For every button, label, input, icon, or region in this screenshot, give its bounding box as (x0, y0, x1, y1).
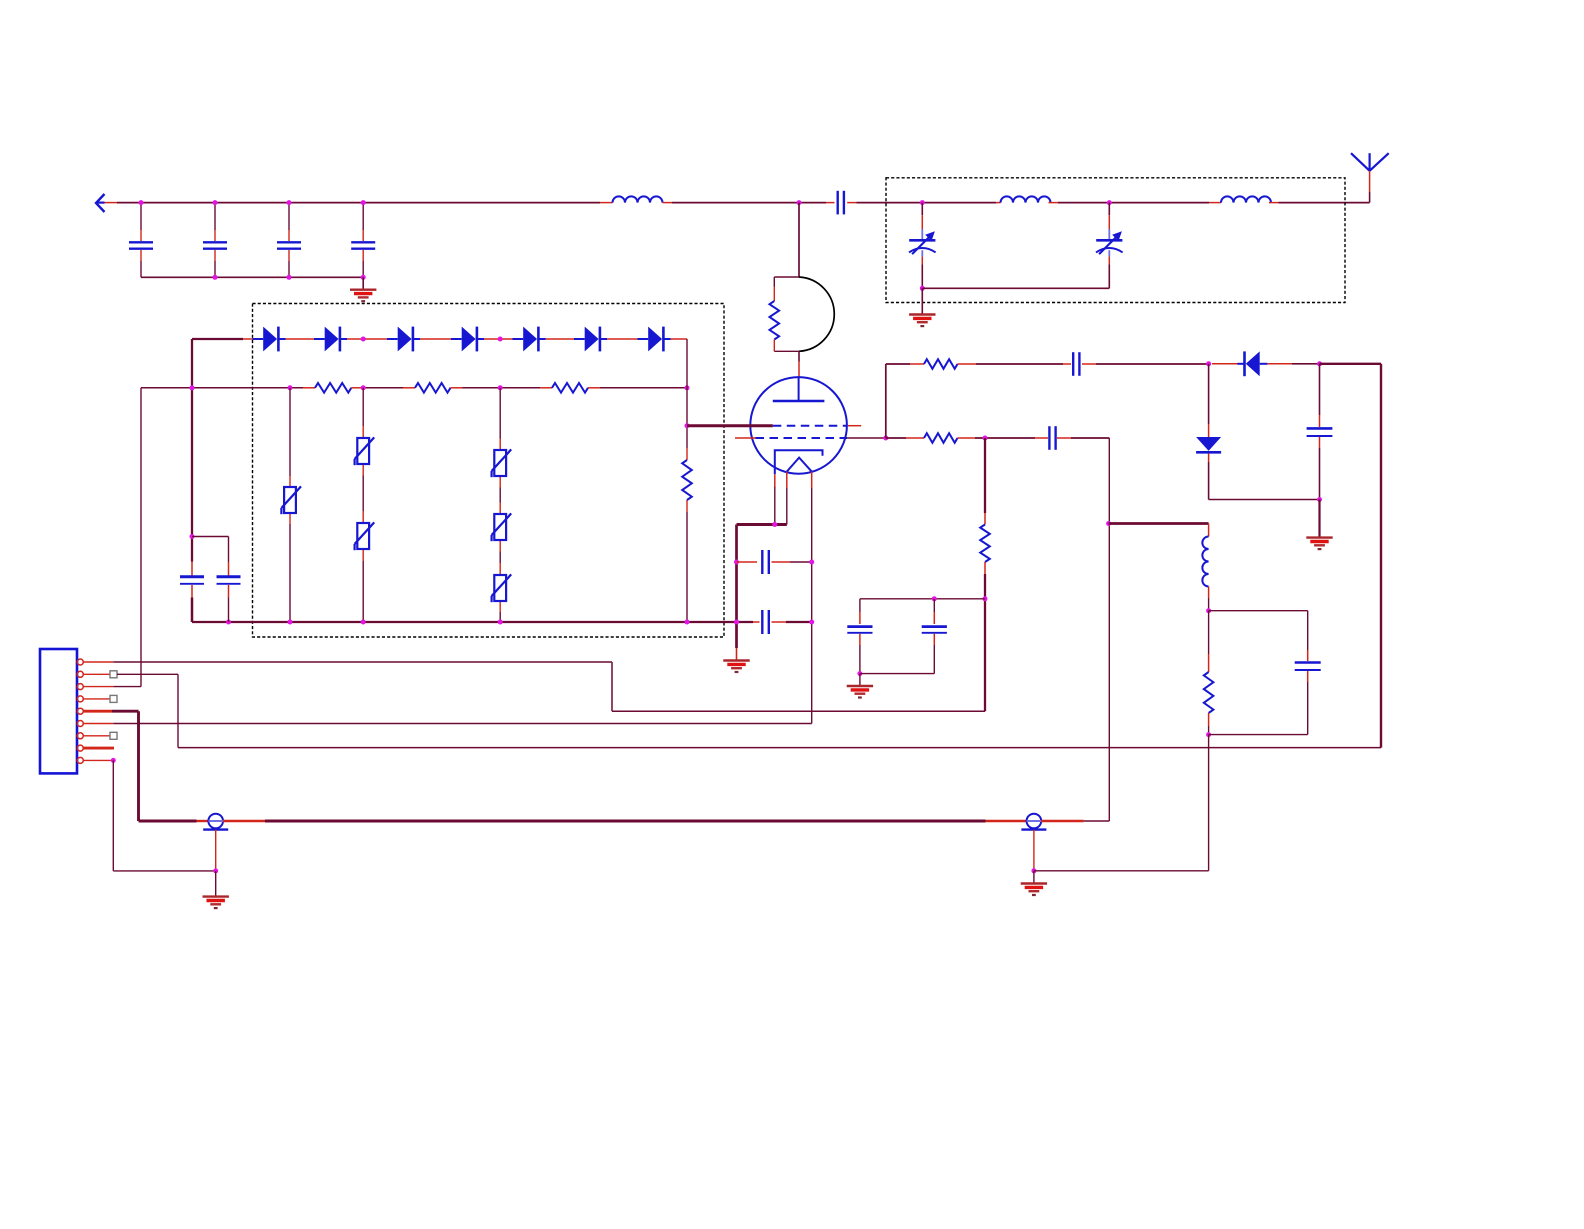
resistor R7 (984, 513, 986, 525)
wire C13 to D8 (1096, 363, 1209, 365)
wire jack rail mid (thick) (223, 820, 265, 822)
connector J1 pins (77, 659, 83, 665)
varistor RV1 (284, 487, 296, 513)
tube V1 grid 2 (735, 437, 756, 439)
jack TP1 ground stem (215, 830, 217, 871)
capacitor C9 (753, 621, 760, 623)
pin 6 stub (83, 723, 113, 725)
inductor L4 (1208, 524, 1210, 537)
tube V1 plate (773, 400, 825, 402)
junction dots diode row (361, 337, 366, 342)
earphone LS1 (resistor element) (774, 276, 799, 278)
junction dot cap pair top (190, 534, 195, 539)
wire CV1 to CV2 bottom (922, 287, 1109, 289)
ground GND3 (723, 659, 749, 661)
no-connect square pin7 (110, 732, 117, 739)
wire row 364 (886, 363, 910, 365)
ground GND2 (921, 288, 923, 314)
resistor R5 (924, 359, 958, 369)
tube V1 envelope (750, 377, 847, 474)
capacitor C13 (series) (1063, 363, 1071, 365)
varistor RV3 (357, 523, 369, 549)
capacitor C8 (737, 561, 758, 563)
junction dots bottom rail (226, 620, 231, 625)
node ANT-IN (left arrow terminal) (96, 194, 105, 212)
wire left feed (thick) (191, 339, 193, 562)
diode D5 (523, 327, 537, 352)
diode D6 (585, 327, 599, 352)
pin 3 stub (83, 686, 113, 688)
diode D8 (1246, 351, 1260, 376)
ground GND5 (1318, 500, 1320, 538)
wire pin6 net (113, 723, 811, 725)
wire cathode drop (thick) (735, 525, 738, 623)
inductor L1 (600, 202, 613, 204)
wire R5 to C13 (958, 363, 977, 365)
wire grid2 to node (847, 437, 886, 439)
wire top rail (L1 to C5) (672, 202, 826, 204)
capacitor C1 (shunt) (140, 203, 142, 230)
tube V1 filament (787, 458, 812, 472)
wire x985 (thick) (984, 438, 986, 513)
capacitor C15 (1307, 611, 1309, 650)
pin 1 stub (83, 661, 113, 663)
wire cap bottom rail (141, 276, 363, 278)
resistor R8 (1208, 611, 1210, 654)
wire cathode down (774, 487, 776, 525)
wire grid1 (thick) (687, 424, 773, 427)
varistor RV2 (357, 438, 369, 464)
diode D9 branch (1208, 364, 1210, 424)
wire junction to earphone (797, 200, 802, 205)
wire column C (499, 388, 501, 439)
variable capacitor CV2 (1107, 200, 1112, 205)
wire bottom rail (thick) (192, 621, 753, 623)
wire cap bottoms (860, 673, 934, 675)
wire filament left down (786, 488, 788, 525)
wire filament right down (811, 488, 813, 724)
pin 8 stub (thick) (83, 747, 114, 750)
junction dots cap rail (213, 275, 218, 280)
capacitor C4 (shunt) (362, 203, 364, 230)
pin 2 stub (83, 673, 110, 675)
wire jack rail left (thick) (139, 820, 197, 823)
wire row 438 (886, 437, 906, 439)
varistor RV4 (494, 450, 506, 476)
pin 5 stub (thick) (83, 710, 112, 713)
wire x985 lower (thick) (984, 574, 986, 711)
varistor RV6 (494, 575, 506, 601)
wire column B (362, 388, 364, 426)
wire drop x1109 (1108, 438, 1110, 821)
wire D8 to corner (thick) (1267, 363, 1292, 365)
diode D1 (263, 327, 277, 352)
wire pin5 net (thick) (112, 710, 139, 713)
jack TP2 ground stem (1033, 830, 1035, 871)
diode D9 (1196, 437, 1221, 451)
dashed box varistor network (253, 304, 725, 638)
diode D2 (325, 327, 339, 352)
ground GND1 (362, 277, 364, 289)
jack TP2 (1027, 814, 1042, 829)
no-connect square pin2 (110, 671, 117, 678)
capacitor C6 (191, 562, 193, 577)
pin 4 stub (83, 698, 110, 700)
diode D7 (648, 327, 662, 352)
capacitor C11 (933, 599, 935, 612)
junction dots resistor row (190, 385, 195, 390)
capacitor C12 (series) (1035, 437, 1048, 439)
diode D3 (398, 327, 412, 352)
wire R6 to C12 (958, 437, 976, 439)
tube V1 grid 1 (773, 425, 847, 427)
tube V1 cathode (775, 450, 823, 474)
wire row 599 (860, 598, 985, 600)
wire pin3 net (113, 686, 141, 688)
junction dots column D (685, 423, 690, 428)
wire jack2 to drop (1041, 820, 1084, 822)
resistor R6 (924, 433, 958, 443)
inductor L2 (996, 202, 1001, 204)
wire cap pair top (192, 536, 229, 538)
wire R8 down (1208, 735, 1210, 871)
wire to coil (thick) (1109, 522, 1209, 525)
diode chain pin wires (243, 338, 253, 340)
wire RC top rail (1209, 610, 1308, 612)
wire top rail (L3 to antenna) (1279, 202, 1370, 204)
wire top rail (C5 to L2) (857, 202, 997, 204)
connector J1 body (40, 649, 77, 773)
inductor L3 (1209, 202, 1221, 204)
wire column D (686, 339, 688, 448)
capacitor C10 (859, 599, 861, 612)
ground GND4 (859, 674, 861, 686)
wire RC bottom rail (1209, 734, 1308, 736)
wire right edge (thick) (1380, 364, 1382, 748)
pin 9 stub (83, 759, 113, 761)
wire top rail (arrow to L1) (105, 202, 118, 204)
capacitor C14 (1319, 364, 1321, 415)
resistor R2 (403, 387, 415, 389)
wire resistor row (141, 387, 303, 389)
ground GND6 (203, 895, 229, 897)
diode D4 (462, 327, 476, 352)
wire pin1 net (113, 661, 612, 663)
wire top rail (L2 to L3) (1058, 202, 1209, 204)
ground GND7 (1021, 882, 1047, 884)
wire C12 to drop (1071, 437, 1109, 439)
wire D9 to node (1208, 454, 1210, 463)
wire pin9 net (112, 760, 114, 871)
dashed box antenna tuner (886, 178, 1345, 303)
wire TP2 ground to R8 (1034, 870, 1209, 872)
jack TP1 (208, 814, 223, 829)
varistor RV5 (494, 514, 506, 540)
capacitor C2 (shunt) (214, 203, 216, 230)
wire grid2 node up (885, 364, 887, 438)
wire column A (289, 388, 291, 476)
capacitor C5 (series) (826, 202, 835, 204)
antenna AN1 (1368, 153, 1370, 171)
wire cathode rail (thick) (737, 523, 787, 526)
resistor R3 (540, 387, 552, 389)
wire earphone to tube plate (798, 351, 800, 361)
junction dots cathode drop (734, 560, 739, 565)
resistor R4 (682, 460, 692, 500)
pin 7 stub (83, 735, 110, 737)
capacitor C3 (shunt) (288, 203, 290, 230)
wire pin2 net (117, 673, 178, 675)
variable capacitor CV1 (920, 200, 925, 205)
capacitor C7 (228, 537, 230, 563)
resistor R1 (303, 387, 315, 389)
no-connect square pin4 (110, 695, 117, 702)
junction dots top rail (139, 200, 144, 205)
